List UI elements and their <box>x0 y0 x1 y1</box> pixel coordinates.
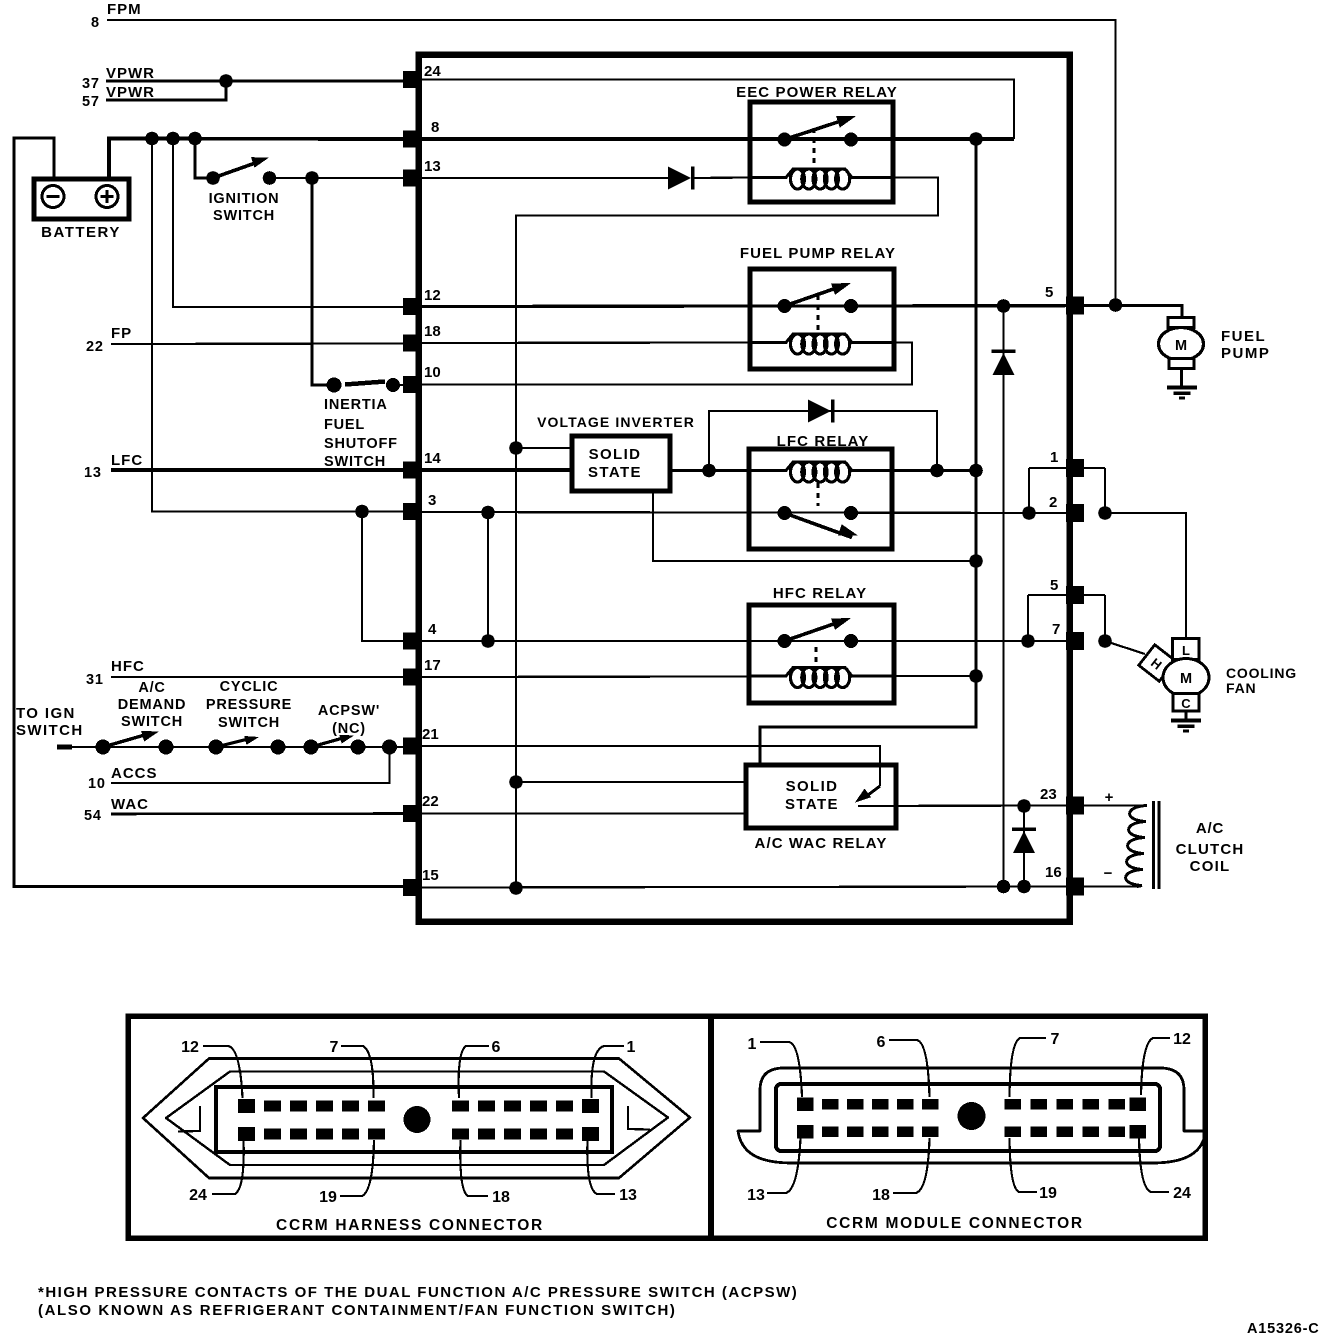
svg-text:EEC POWER RELAY: EEC POWER RELAY <box>736 84 898 101</box>
ACPSW switch S5 (NC) <box>304 740 319 755</box>
wire clutch flyback diode column <box>1023 806 1025 887</box>
svg-text:FP: FP <box>111 325 132 342</box>
node bus tap to ignition switch <box>188 132 202 146</box>
wire pin 12 through fuel pump relay contacts to pin 5 and fuel pump <box>421 306 1182 321</box>
node clutch flyback diode tap <box>1017 799 1031 813</box>
node HFC coil return on bus <box>969 669 983 683</box>
svg-text:COIL: COIL <box>1190 858 1231 875</box>
pin 4 (left edge) <box>403 633 421 650</box>
node VPWR junction <box>219 74 233 88</box>
pin 24 (left edge) <box>403 71 421 88</box>
svg-text:23: 23 <box>1040 786 1057 803</box>
svg-text:IGNITION: IGNITION <box>209 191 280 207</box>
module pin blade top row 4 <box>872 1099 889 1110</box>
svg-text:24: 24 <box>189 1187 207 1204</box>
svg-text:LFC RELAY: LFC RELAY <box>777 433 870 450</box>
module pin blade top row 10 <box>1083 1099 1100 1110</box>
svg-text:13: 13 <box>619 1187 637 1204</box>
svg-text:SWITCH: SWITCH <box>16 722 84 739</box>
wire tap to voltage inverter input <box>516 447 572 449</box>
harness pin blade bottom row 12 <box>582 1127 599 1141</box>
harness pin blade bottom row 10 <box>530 1129 547 1140</box>
WAC relay output transistor arrow <box>864 786 880 798</box>
wire EEC coil return to node bus <box>516 178 938 889</box>
harness pin blade bottom row 2 <box>264 1129 281 1140</box>
module pin blade top row 6 <box>922 1099 939 1110</box>
node LFC flyback diode right leg <box>930 464 944 478</box>
svg-text:STATE: STATE <box>588 464 642 481</box>
svg-text:14: 14 <box>424 450 441 467</box>
svg-text:A15326-C: A15326-C <box>1247 1321 1320 1337</box>
svg-text:17: 17 <box>424 657 441 674</box>
svg-text:8: 8 <box>91 15 100 31</box>
node clutch diode ground leg <box>1017 880 1031 894</box>
wire ignition switch feed <box>195 139 210 179</box>
panel divider <box>708 1016 714 1238</box>
LFC relay actuation link (dashed) <box>817 483 820 506</box>
svg-text:13: 13 <box>84 465 102 481</box>
wire WAC 54 to pin 22 <box>111 812 405 815</box>
module pin blade top row 3 <box>847 1099 864 1110</box>
harness pin blade top row 11 <box>556 1101 573 1112</box>
node ground return on pin 15 wire <box>509 881 523 895</box>
svg-text:1: 1 <box>627 1039 636 1056</box>
pin 23 (right edge) <box>1066 797 1084 815</box>
svg-text:FUEL: FUEL <box>324 417 365 433</box>
pin 5 (right edge) <box>1066 297 1084 315</box>
wire pin 14 to voltage inverter and LFC relay coil <box>421 468 572 472</box>
svg-text:FUEL: FUEL <box>1221 328 1266 345</box>
EEC relay contacts and armature <box>778 133 792 147</box>
wire pin 3 through LFC relay contacts to pin 2 <box>421 512 1066 513</box>
wire link pin 3 to pin 4 (right) <box>487 513 489 642</box>
harness pin blade top row 8 <box>478 1101 495 1112</box>
harness connector center post <box>404 1106 431 1133</box>
harness pin blade bottom row 9 <box>504 1129 521 1140</box>
harness pin blade bottom row 5 <box>342 1129 359 1140</box>
svg-text:37: 37 <box>82 76 100 92</box>
wire LFC flyback diode loop <box>709 411 937 471</box>
module pin blade bottom row 3 <box>847 1126 864 1137</box>
wire pin 13 to EEC relay coil <box>421 177 668 179</box>
node fuel pump flyback diode tap <box>997 299 1011 313</box>
svg-text:SWITCH: SWITCH <box>324 454 386 470</box>
pin 21 (left edge) <box>403 738 421 755</box>
pin 7 (right edge) <box>1066 632 1084 650</box>
svg-text:24: 24 <box>1173 1185 1191 1202</box>
node ACCS tap on pin 21 wire <box>382 740 397 755</box>
harness pin blade bottom row 11 <box>556 1129 573 1140</box>
svg-text:HFC: HFC <box>111 658 145 675</box>
svg-text:SOLID: SOLID <box>589 446 642 463</box>
cyclic pressure switch S4 <box>209 740 224 755</box>
module pin blade top row 11 <box>1109 1099 1126 1110</box>
pin 13 (left edge) <box>403 170 421 187</box>
harness connector key (right) <box>628 1106 650 1130</box>
svg-text:CLUTCH: CLUTCH <box>1176 841 1245 858</box>
svg-text:12: 12 <box>181 1039 199 1056</box>
svg-text:6: 6 <box>492 1039 501 1056</box>
pin 14 (left edge) <box>403 462 421 479</box>
node bus tap to pin 3 feed <box>145 132 159 146</box>
wire pin 23 to A/C clutch coil positive <box>1084 804 1146 806</box>
harness pin blade bottom row 4 <box>316 1129 333 1140</box>
diode CR3 fuel pump flyback <box>993 353 1015 375</box>
svg-text:13: 13 <box>747 1187 765 1204</box>
wire pin 18 to fuel pump relay coil <box>421 341 750 344</box>
harness connector inner shell <box>166 1072 668 1166</box>
svg-text:1: 1 <box>1050 449 1058 466</box>
ignition switch S1 <box>206 171 220 185</box>
svg-text:TO IGN: TO IGN <box>16 705 76 722</box>
svg-text:19: 19 <box>319 1189 337 1206</box>
svg-text:CCRM HARNESS CONNECTOR: CCRM HARNESS CONNECTOR <box>276 1217 544 1234</box>
voltage inverter box U2 <box>572 436 670 491</box>
fuel pump motor M1 <box>1168 317 1195 328</box>
wire pin 15 to pin 16 ground return <box>421 887 1066 888</box>
node LFC flyback diode left leg <box>702 464 716 478</box>
pin 3 (left edge) <box>403 503 421 520</box>
svg-text:18: 18 <box>424 323 441 340</box>
fuel pump relay actuation link (dashed) <box>817 295 820 333</box>
wire FPM net (pin 8 circuit) <box>107 20 1116 305</box>
svg-text:STATE: STATE <box>785 796 839 813</box>
wire VPWR 37 to pin 24 <box>106 80 405 83</box>
svg-text:12: 12 <box>1173 1031 1191 1048</box>
wire ignition to inertia fuel shutoff switch <box>312 178 334 385</box>
svg-text:PUMP: PUMP <box>1221 345 1270 362</box>
diode CR1 ignition feed <box>668 167 691 190</box>
A/C clutch coil L1 <box>1126 806 1147 887</box>
wire pin 6 tie to pin 7 (inside and outside brackets) <box>1028 594 1105 596</box>
node VPWR distribution junction <box>969 132 983 146</box>
svg-text:SOLID: SOLID <box>786 778 839 795</box>
svg-text:12: 12 <box>424 287 441 304</box>
module pin blade bottom row 12 <box>1130 1125 1147 1139</box>
module pin blade top row 12 <box>1130 1097 1147 1111</box>
svg-text:18: 18 <box>872 1187 890 1204</box>
wire VPWR coil-return bus (vertical) <box>760 139 976 766</box>
svg-text:LFC: LFC <box>111 452 143 469</box>
harness connector pin field <box>216 1087 612 1152</box>
module pin blade bottom row 6 <box>922 1126 939 1137</box>
inertia fuel shutoff switch S2 <box>327 378 342 393</box>
svg-text:22: 22 <box>422 793 439 810</box>
svg-text:M: M <box>1175 338 1187 354</box>
LFC relay coil <box>750 462 893 471</box>
svg-text:VPWR: VPWR <box>106 84 155 101</box>
HFC relay K4 box <box>749 605 894 703</box>
harness pin blade top row 12 <box>582 1099 599 1113</box>
harness pin blade top row 6 <box>368 1101 385 1112</box>
wire HFC coil return to bus <box>894 675 976 677</box>
harness pin blade top row 5 <box>342 1101 359 1112</box>
svg-text:FAN: FAN <box>1226 680 1256 696</box>
CCRM module connector J2 outer shell <box>738 1068 1206 1163</box>
wire VPWR 57 jumper <box>106 81 226 100</box>
svg-text:5: 5 <box>1050 577 1058 594</box>
module pin blade bottom row 10 <box>1083 1126 1100 1137</box>
pin 12 (left edge) <box>403 298 421 315</box>
svg-text:L: L <box>1182 643 1190 658</box>
node inverter feed tap <box>509 441 523 455</box>
connector detail panel frame <box>128 1016 1205 1238</box>
node FPM joins fuel pump feed <box>1109 298 1123 312</box>
LFC relay K3 box <box>749 449 892 549</box>
svg-text:+: + <box>1105 789 1114 806</box>
svg-text:8: 8 <box>431 119 439 136</box>
svg-text:7: 7 <box>1051 1031 1060 1048</box>
wire pin 21 to A/C WAC relay <box>421 746 880 786</box>
harness pin blade bottom row 7 <box>452 1129 469 1140</box>
harness connector key (left) <box>178 1106 200 1132</box>
svg-text:VPWR: VPWR <box>106 65 155 82</box>
harness pin blade top row 7 <box>452 1101 469 1112</box>
svg-text:−: − <box>1104 865 1113 882</box>
module pin blade bottom row 4 <box>872 1126 889 1137</box>
pin 8 (left edge) <box>403 131 421 148</box>
module pin blade top row 5 <box>897 1099 914 1110</box>
pin 16 (right edge) <box>1066 878 1084 896</box>
svg-text:VOLTAGE INVERTER: VOLTAGE INVERTER <box>537 414 695 430</box>
svg-text:24: 24 <box>424 63 441 80</box>
svg-text:DEMAND: DEMAND <box>118 697 186 713</box>
svg-text:HFC RELAY: HFC RELAY <box>773 585 867 602</box>
node WAC control tap <box>509 775 523 789</box>
cooling fan high-speed terminal H <box>1139 645 1175 681</box>
harness pin blade top row 2 <box>264 1101 281 1112</box>
svg-text:54: 54 <box>84 808 102 824</box>
svg-text:A/C: A/C <box>138 680 165 696</box>
pin 10 (left edge) <box>403 376 421 393</box>
harness pin blade top row 1 <box>238 1099 255 1113</box>
pin 22 (left edge) <box>403 805 421 822</box>
pin 15 (left edge) <box>403 879 421 896</box>
ground (fuel pump) <box>1167 386 1197 390</box>
pin 18 (left edge) <box>403 335 421 352</box>
module pin blade bottom row 7 <box>1005 1126 1022 1137</box>
harness pin blade bottom row 8 <box>478 1129 495 1140</box>
svg-text:*HIGH PRESSURE CONTACTS OF THE: *HIGH PRESSURE CONTACTS OF THE DUAL FUNC… <box>38 1284 798 1301</box>
wire ACCS 10 <box>111 747 390 783</box>
svg-text:18: 18 <box>492 1189 510 1206</box>
wire inverter output down to bus <box>653 491 976 561</box>
module pin blade top row 9 <box>1057 1099 1074 1110</box>
node LFC coil return on bus <box>969 464 983 478</box>
wire pin 4 through HFC relay contacts to pin 7 <box>421 640 1066 642</box>
harness pin blade top row 3 <box>290 1101 307 1112</box>
svg-text:22: 22 <box>86 339 104 355</box>
HFC relay contacts and armature <box>778 634 792 648</box>
node bus tap to pin 12 feed <box>166 132 180 146</box>
node link lands on pin 4 wire <box>481 634 495 648</box>
wire link pin 3 to pin 4 (left) <box>362 512 405 642</box>
wire pin 1 tie to pin 2 (inside and outside brackets) <box>1029 467 1105 469</box>
svg-text:7: 7 <box>1052 621 1060 638</box>
HFC relay coil <box>750 668 893 677</box>
HFC relay actuation link (dashed) <box>815 647 818 668</box>
svg-text:COOLING: COOLING <box>1226 665 1297 681</box>
LFC relay contacts and armature <box>778 506 792 520</box>
EEC power relay K1 box <box>750 102 893 202</box>
harness pin blade bottom row 6 <box>368 1129 385 1140</box>
svg-text:ACPSW': ACPSW' <box>318 703 380 719</box>
wire battery positive bus to pin 8 <box>109 139 405 182</box>
node fuel pump diode ground leg <box>997 880 1011 894</box>
svg-text:57: 57 <box>82 94 100 110</box>
module pin blade bottom row 5 <box>897 1126 914 1137</box>
wire FP circuit 22 to pin 18 <box>111 342 405 345</box>
EEC relay coil <box>750 169 893 178</box>
svg-text:15: 15 <box>422 867 439 884</box>
wire fuel pump flyback diode column <box>1002 306 1004 887</box>
wire LFC circuit 13 to pin 14 <box>111 468 405 472</box>
pin 1 (right edge) <box>1066 459 1084 477</box>
svg-text:3: 3 <box>428 492 436 509</box>
module connector pin field <box>776 1084 1160 1151</box>
harness pin blade top row 4 <box>316 1101 333 1112</box>
pin 5 (right edge) <box>1066 586 1084 604</box>
A/C WAC relay K5 (solid state) box <box>746 765 896 828</box>
svg-text:PRESSURE: PRESSURE <box>206 697 292 713</box>
wire LFC coil return to bus <box>892 469 976 472</box>
svg-text:10: 10 <box>88 776 106 792</box>
svg-text:CYCLIC: CYCLIC <box>220 679 279 695</box>
harness pin blade top row 9 <box>504 1101 521 1112</box>
wire pin 7 to cooling fan high terminal <box>1105 641 1145 654</box>
svg-text:2: 2 <box>1049 494 1057 511</box>
diode CR4 A/C clutch flyback <box>1013 831 1035 853</box>
module connector center post <box>958 1102 986 1130</box>
wire ground loop: battery negative, left side down to pin 15 <box>14 138 405 887</box>
svg-text:10: 10 <box>424 364 441 381</box>
A/C demand switch S3 <box>96 740 111 755</box>
svg-text:13: 13 <box>424 158 441 175</box>
wire pin 16 to A/C clutch coil negative <box>1084 885 1140 887</box>
svg-text:INERTIA: INERTIA <box>324 397 388 413</box>
wire pin 24 VPWR run to pin 8 node <box>421 80 1014 140</box>
module pin blade top row 8 <box>1031 1099 1048 1110</box>
svg-text:C: C <box>1181 696 1191 711</box>
harness pin blade bottom row 1 <box>238 1127 255 1141</box>
CCRM module box U1 <box>419 55 1070 922</box>
svg-text:(NC): (NC) <box>332 721 366 737</box>
module pin blade top row 1 <box>797 1097 814 1111</box>
module pin blade top row 2 <box>822 1099 839 1110</box>
svg-text:SWITCH: SWITCH <box>218 715 280 731</box>
svg-text:A/C: A/C <box>1196 820 1224 837</box>
svg-text:1: 1 <box>748 1036 757 1053</box>
svg-text:21: 21 <box>422 726 439 743</box>
module pin blade bottom row 2 <box>822 1126 839 1137</box>
wire A/C WAC output to pin 23 <box>858 804 1066 807</box>
harness pin blade bottom row 3 <box>290 1129 307 1140</box>
wire HFC circuit 31 to pin 17 <box>111 676 405 678</box>
wire A/C request chain to pin 21 <box>57 746 405 748</box>
harness pin blade top row 10 <box>530 1101 547 1112</box>
svg-text:4: 4 <box>428 621 437 638</box>
svg-text:7: 7 <box>330 1039 339 1056</box>
node pin3/pin4 link right <box>481 506 495 520</box>
wire ignition switch to pin 13 <box>270 177 406 179</box>
svg-text:6: 6 <box>877 1034 886 1051</box>
svg-text:M: M <box>1180 671 1192 687</box>
wire pin 17 to HFC relay coil <box>421 675 750 678</box>
wire pin 3 feed from battery bus <box>152 139 405 512</box>
battery B1 <box>34 179 129 219</box>
svg-text:BATTERY: BATTERY <box>41 224 121 241</box>
svg-text:SHUTOFF: SHUTOFF <box>324 436 398 452</box>
svg-text:SWITCH: SWITCH <box>121 714 183 730</box>
wire pin 22 to A/C WAC relay <box>421 812 746 814</box>
cooling fan motor M2 <box>1173 639 1200 660</box>
svg-text:(ALSO KNOWN AS REFRIGERANT CON: (ALSO KNOWN AS REFRIGERANT CONTAINMENT/F… <box>38 1302 677 1319</box>
diode CR2 LFC coil flyback <box>808 400 831 423</box>
node pin3/pin4 link left <box>355 505 369 519</box>
svg-text:SWITCH: SWITCH <box>213 208 275 224</box>
svg-text:19: 19 <box>1039 1185 1057 1202</box>
wire fuel pump relay coil return to pin 10 <box>421 343 912 385</box>
wire tap to A/C WAC relay input <box>516 781 746 783</box>
wire pin 8 VPWR main run <box>421 137 1014 141</box>
module pin blade bottom row 8 <box>1031 1126 1048 1137</box>
module pin blade bottom row 11 <box>1109 1126 1126 1137</box>
svg-text:ACCS: ACCS <box>111 765 158 782</box>
svg-text:5: 5 <box>1045 284 1053 301</box>
svg-text:CCRM MODULE CONNECTOR: CCRM MODULE CONNECTOR <box>826 1215 1084 1232</box>
fuel pump relay K2 box <box>750 269 894 369</box>
svg-text:31: 31 <box>86 672 104 688</box>
pin 17 (left edge) <box>403 669 421 686</box>
module pin blade bottom row 9 <box>1057 1126 1074 1137</box>
svg-text:16: 16 <box>1045 864 1062 881</box>
fuel pump relay contacts and armature <box>778 299 792 313</box>
wire pin 2 to cooling fan low terminal <box>1105 513 1186 639</box>
node inverter output on bus <box>969 554 983 568</box>
CCRM harness connector J1 outer shell <box>143 1059 690 1179</box>
pin 2 (right edge) <box>1066 504 1084 522</box>
module pin blade bottom row 1 <box>797 1125 814 1139</box>
svg-text:FPM: FPM <box>107 1 142 18</box>
ground (cooling fan) <box>1171 719 1201 723</box>
fuel pump relay coil <box>750 334 893 343</box>
svg-text:FUEL PUMP RELAY: FUEL PUMP RELAY <box>740 245 896 262</box>
module pin blade top row 7 <box>1005 1099 1022 1110</box>
svg-text:WAC: WAC <box>111 796 149 813</box>
wire pin 12 feed from battery bus <box>173 139 405 308</box>
svg-text:A/C WAC RELAY: A/C WAC RELAY <box>755 835 888 852</box>
EEC relay actuation link (dashed) <box>813 128 816 168</box>
